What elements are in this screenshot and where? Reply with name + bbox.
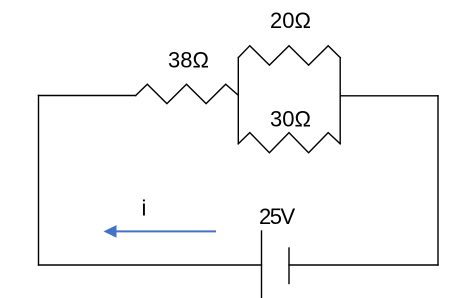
battery 25V short plate (288, 248, 290, 284)
wire top-left horizontal (39, 95, 136, 97)
wire bottom-right horizontal (289, 264, 438, 266)
current arrow i head (104, 225, 117, 238)
node left bus of parallel pair (237, 58, 239, 144)
wire right vertical (437, 96, 439, 265)
svg-text:25V: 25V (259, 204, 295, 229)
current arrow i shaft (116, 230, 216, 232)
resistor 20ohm zigzag (238, 46, 340, 65)
svg-text:20Ω: 20Ω (270, 8, 311, 33)
resistor 38ohm zigzag (136, 84, 239, 103)
wire top-right horizontal (340, 95, 438, 97)
wire bottom-left horizontal (39, 264, 262, 266)
svg-text:38Ω: 38Ω (168, 47, 209, 72)
svg-text:i: i (142, 196, 147, 221)
svg-text:30Ω: 30Ω (270, 107, 311, 132)
node right bus of parallel pair (339, 58, 341, 144)
wire left vertical (38, 96, 40, 266)
battery 25V long plate (261, 231, 263, 298)
resistor 30ohm zigzag (238, 133, 340, 153)
